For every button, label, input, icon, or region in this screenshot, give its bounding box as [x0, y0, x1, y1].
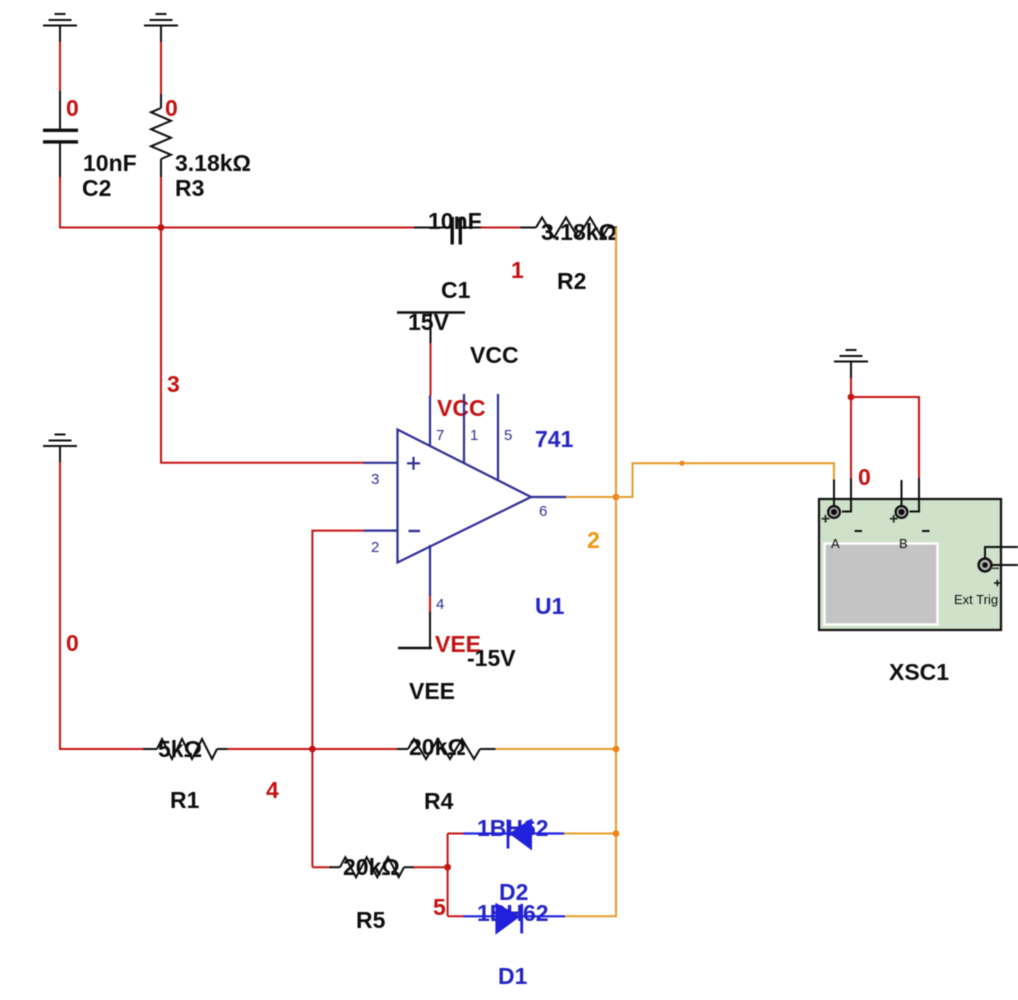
- svg-text:0: 0: [858, 464, 871, 490]
- svg-text:10nF: 10nF: [428, 208, 482, 234]
- capacitor C2: [43, 129, 78, 144]
- terminal B: [896, 506, 908, 518]
- svg-text:R5: R5: [356, 907, 386, 933]
- oscilloscope screen: [825, 544, 938, 625]
- ext trig minus mark: [991, 567, 1000, 569]
- svg-text:3.18kΩ: 3.18kΩ: [175, 150, 251, 176]
- wire G4 red: [850, 378, 852, 397]
- wire C2 to rail: [60, 178, 415, 228]
- wire net0 G1 to C2: [59, 42, 61, 92]
- wire net3 vertical to noninverting input: [161, 228, 364, 463]
- wire R5 right lead: [404, 866, 415, 868]
- junction scope ground: [848, 394, 855, 401]
- ground G3 left: [43, 435, 77, 463]
- op-amp plus mark: [407, 457, 420, 470]
- wire R4 left lead: [397, 748, 408, 750]
- svg-text:5kΩ: 5kΩ: [158, 736, 202, 762]
- oscilloscope XSC1 body: [819, 499, 1001, 630]
- wire R2 left lead: [521, 227, 537, 229]
- wire R5 left lead: [330, 866, 341, 868]
- svg-text:1BH62: 1BH62: [477, 815, 549, 841]
- terminal B minus mark: [922, 530, 930, 532]
- wire pin4 black to VEE: [429, 612, 431, 649]
- wire D2 orange: [564, 833, 616, 835]
- wire C1 right lead: [462, 227, 482, 229]
- op-amp pin4 lead: [429, 545, 431, 597]
- op-amp pin5 lead: [497, 394, 499, 479]
- op-amp pin1 lead: [463, 394, 465, 463]
- junction output net2: [613, 494, 620, 501]
- svg-text:D1: D1: [498, 963, 528, 989]
- wire C2 bottom lead: [59, 144, 61, 178]
- VEE supply bar: [398, 647, 432, 649]
- svg-text:C1: C1: [441, 277, 471, 303]
- wire D1 left red: [448, 915, 465, 917]
- wire R5 to diode tee: [414, 866, 448, 868]
- junction diode tee: [444, 864, 451, 871]
- wire VCC net red: [430, 343, 432, 396]
- resistor R5 zigzag: [340, 857, 404, 877]
- svg-text:2: 2: [371, 539, 379, 556]
- svg-text:-15V: -15V: [467, 645, 516, 671]
- wire R4 right lead: [480, 748, 497, 750]
- wire net0 G2 to R3: [160, 42, 162, 95]
- wire R5 left red: [312, 866, 330, 868]
- svg-text:B: B: [899, 536, 908, 551]
- resistor R4 zigzag: [408, 739, 480, 759]
- wire R3 top lead: [160, 94, 162, 108]
- diode D2 triangle: [509, 818, 532, 850]
- wire R1 to R4: [228, 748, 398, 750]
- op-amp U1 triangle: [398, 430, 532, 563]
- wire B minus hook: [910, 478, 920, 512]
- wire D2 left red: [448, 833, 465, 835]
- svg-text:1: 1: [470, 427, 478, 444]
- wire C2 top lead: [59, 91, 61, 129]
- wire net2 orange vertical: [564, 228, 616, 917]
- wire inverting input net: [312, 531, 364, 868]
- wire C1 to R2: [481, 227, 522, 229]
- wire ground to A minus: [850, 397, 852, 481]
- svg-text:5: 5: [504, 427, 512, 444]
- wire A minus hook: [842, 479, 851, 512]
- wire R1 left lead: [143, 748, 157, 750]
- diode D2 left lead: [464, 832, 508, 834]
- resistor R3 zigzag: [151, 108, 171, 159]
- svg-text:4: 4: [436, 596, 444, 613]
- diode D2 cathode bar: [507, 820, 510, 849]
- svg-text:R1: R1: [170, 787, 200, 813]
- junction rail-R3: [158, 224, 165, 231]
- op-amp minus mark: [409, 530, 421, 532]
- svg-text:VEE: VEE: [409, 678, 455, 704]
- wire C1 left lead: [414, 227, 451, 229]
- svg-text:R4: R4: [424, 788, 454, 814]
- junction D2 net2: [613, 830, 620, 837]
- svg-text:0: 0: [165, 95, 178, 121]
- capacitor C1: [451, 217, 463, 245]
- resistor R1 zigzag: [157, 739, 217, 759]
- svg-text:1: 1: [511, 257, 524, 283]
- op-amp pin3 lead: [364, 462, 398, 464]
- wire output to scope: [616, 463, 834, 497]
- wire net0 G3 down to R1: [60, 462, 144, 749]
- wire B plus stub: [901, 480, 903, 506]
- waypoint dot scope wire: [679, 461, 684, 466]
- op-amp output lead: [531, 496, 567, 498]
- svg-text:7: 7: [436, 427, 444, 444]
- svg-text:6: 6: [539, 503, 547, 520]
- svg-text:741: 741: [535, 426, 574, 452]
- terminal A minus mark: [855, 530, 862, 532]
- svg-text:R3: R3: [175, 175, 204, 201]
- svg-text:A: A: [831, 536, 840, 551]
- wire output orange to net2: [566, 496, 616, 498]
- svg-text:R2: R2: [557, 268, 586, 294]
- junction R4 net2: [613, 746, 620, 753]
- svg-text:U1: U1: [535, 593, 565, 619]
- svg-text:3: 3: [371, 471, 379, 488]
- svg-text:10nF: 10nF: [83, 150, 137, 176]
- wire R1 right lead: [217, 748, 229, 750]
- terminal B plus mark: [890, 515, 898, 523]
- diode D2 right lead: [532, 832, 565, 834]
- wire A plus black: [833, 480, 835, 506]
- diode D1 left lead: [464, 915, 497, 917]
- wire R4 orange to net2: [496, 748, 617, 750]
- svg-text:XSC1: XSC1: [889, 659, 949, 685]
- wire ground to B minus: [851, 397, 919, 479]
- svg-text:VCC: VCC: [437, 395, 486, 421]
- ext trig plus mark: [994, 580, 1001, 586]
- VCC supply bar: [397, 311, 465, 313]
- wire R3 bottom lead: [160, 159, 162, 178]
- diode D1 cathode bar: [520, 904, 523, 934]
- terminal A: [828, 506, 840, 518]
- resistor R2 zigzag: [536, 218, 608, 238]
- svg-text:C2: C2: [82, 175, 111, 201]
- diode D1 right lead: [523, 915, 565, 917]
- junction node4: [309, 746, 316, 753]
- svg-text:0: 0: [66, 630, 79, 656]
- wire R2 right lead: [608, 227, 617, 229]
- ground G4 scope: [834, 350, 868, 379]
- svg-text:5: 5: [433, 894, 446, 920]
- svg-text:Ext Trig: Ext Trig: [954, 592, 998, 607]
- ext trig wires: [985, 547, 1018, 565]
- wire R3 to rail: [160, 177, 162, 228]
- svg-text:3: 3: [167, 371, 180, 397]
- svg-text:0: 0: [66, 95, 79, 121]
- ground G2 top: [144, 14, 178, 43]
- ext trig terminal: [979, 559, 992, 572]
- svg-text:4: 4: [266, 777, 279, 803]
- wire tee vertical: [447, 834, 449, 917]
- op-amp pin7 lead: [429, 396, 431, 447]
- svg-text:VCC: VCC: [470, 342, 519, 368]
- svg-text:2: 2: [587, 527, 600, 553]
- terminal A plus mark: [822, 515, 830, 523]
- diode D1 triangle: [495, 903, 520, 935]
- wire VCC bar lead: [430, 313, 432, 345]
- ground G1 top-left: [43, 14, 77, 43]
- op-amp pin2 lead: [364, 529, 398, 531]
- wire pin4 red: [429, 596, 431, 613]
